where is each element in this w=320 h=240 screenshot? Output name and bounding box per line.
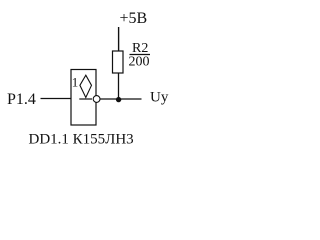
svg-text:P1.4: P1.4 <box>7 91 36 108</box>
fraction bar <box>130 54 151 56</box>
svg-text:Uу: Uу <box>150 90 169 106</box>
node junction dot <box>116 97 121 102</box>
resistor R2 body <box>113 51 124 73</box>
svg-text:+5В: +5В <box>120 10 148 27</box>
svg-text:DD1.1 К155ЛН3: DD1.1 К155ЛН3 <box>29 132 134 148</box>
input wire <box>41 98 72 100</box>
wire from +5В to resistor R2 <box>118 27 120 51</box>
svg-text:1: 1 <box>72 75 79 90</box>
open-collector diamond <box>80 75 92 97</box>
wire from resistor to output node <box>118 73 120 99</box>
op-amp body: logic gate DD1.1 rectangle <box>71 70 96 126</box>
output wire <box>100 98 142 100</box>
inversion bubble <box>93 96 100 103</box>
open-collector bar <box>79 98 92 100</box>
svg-text:200: 200 <box>129 55 150 70</box>
